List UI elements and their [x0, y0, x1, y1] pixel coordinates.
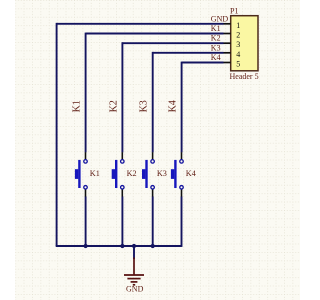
junction ground/rail: [132, 244, 136, 248]
svg-text:K3: K3: [139, 100, 150, 112]
svg-text:GND: GND: [211, 14, 229, 23]
wire switch K2 bottom to rail: [121, 196, 123, 246]
wire net GND: header pin1 to left rail (horizontal): [57, 23, 224, 25]
svg-text:GND: GND: [126, 285, 144, 294]
junction K1/rail: [84, 244, 88, 248]
switch K2: [112, 152, 137, 196]
svg-text:K2: K2: [108, 100, 119, 112]
wire net K4: header pin5 to switch K4 (horizontal): [182, 62, 224, 64]
pin 3 stub: [224, 42, 231, 44]
ground symbol: [124, 258, 144, 285]
junction K2/rail: [120, 244, 124, 248]
pin 5 stub: [224, 62, 231, 64]
pin 4 stub: [224, 52, 231, 54]
svg-text:K3: K3: [211, 43, 221, 52]
wire net K4: vertical to switch K4: [181, 62, 183, 153]
switch K4: [171, 152, 196, 196]
svg-text:K2: K2: [211, 34, 221, 43]
wire net K1: vertical to switch K1: [85, 33, 87, 153]
svg-text:K1: K1: [211, 24, 221, 33]
svg-text:K1: K1: [90, 169, 100, 178]
svg-text:4: 4: [236, 50, 240, 59]
svg-text:K2: K2: [127, 169, 137, 178]
wire net K2: vertical to switch K2: [121, 42, 123, 152]
wire switch K3 bottom to rail: [152, 196, 154, 246]
svg-text:P1: P1: [230, 7, 238, 16]
wire ground stem: [133, 246, 135, 259]
junction K3/rail: [151, 244, 155, 248]
pin 1 stub: [224, 23, 231, 25]
svg-text:5: 5: [236, 60, 240, 69]
pin 2 stub: [224, 33, 231, 35]
svg-text:3: 3: [236, 40, 240, 49]
svg-text:K4: K4: [211, 53, 221, 62]
svg-text:K3: K3: [157, 169, 167, 178]
svg-text:K4: K4: [168, 100, 179, 112]
svg-text:1: 1: [236, 21, 240, 30]
wire net K3: header pin4 to switch K3 (horizontal): [153, 52, 224, 54]
wire switch K4 bottom to rail: [181, 196, 183, 247]
svg-text:K1: K1: [72, 100, 83, 112]
wire net K1: header pin2 to switch K1 (horizontal): [86, 33, 224, 35]
switch K3: [142, 152, 167, 196]
wire net K2: header pin3 to switch K2 (horizontal): [122, 42, 223, 44]
wire net GND: left vertical rail: [56, 23, 58, 246]
svg-text:Header 5: Header 5: [230, 72, 259, 81]
wire switch K1 bottom to rail: [85, 196, 87, 246]
wire net GND: bottom rail: [56, 245, 182, 247]
switch K1: [75, 152, 100, 196]
svg-text:K4: K4: [186, 169, 196, 178]
svg-text:2: 2: [236, 31, 240, 40]
connector P1 body: [231, 16, 258, 71]
wire net K3: vertical to switch K3: [152, 52, 154, 152]
